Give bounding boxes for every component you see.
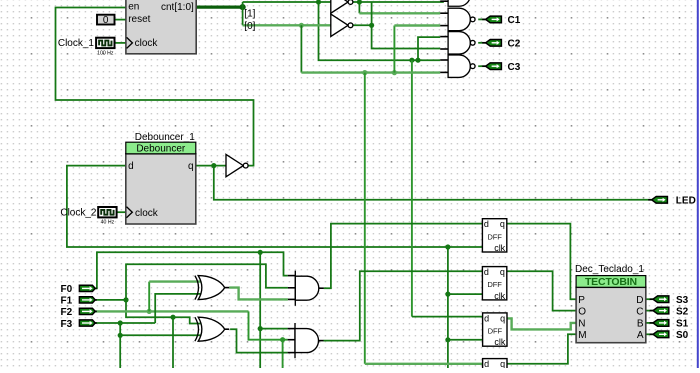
junction F1 [123,297,128,302]
wire to DFF4 d [365,363,483,365]
svg-text:en: en [128,2,139,13]
junction C3 upper / C2 riser [415,58,420,63]
svg-text:0: 0 [103,15,109,26]
XOR gate XOR1 [198,276,225,300]
svg-text:q: q [500,359,505,368]
wire F3 to XOR1 lower input [155,294,201,323]
wire F3 from pin [92,322,155,324]
NAND gate NAND0 (clipped) [448,0,470,6]
wire C1 gate to pin [478,18,485,20]
svg-text:DFF: DFF [488,327,503,336]
svg-text:clock: clock [135,208,159,219]
XOR gate XOR2 [198,317,225,341]
input pin F1 [93,299,96,301]
wire D to S3 [646,298,653,300]
svg-text:A: A [637,330,644,341]
wire B to S1 [646,322,653,324]
junction clk DFF2 [445,292,450,297]
svg-text:C1: C1 [508,15,521,26]
wire F3 to XOR2 lower input [120,323,201,335]
output pin LED [648,199,653,201]
output pin S0 [650,333,655,335]
wire inverter2 out [353,24,372,26]
svg-text:DFF: DFF [487,280,502,289]
svg-text:d: d [484,313,489,323]
NAND gate C2 gate [448,32,470,55]
wire F1 from pin [92,299,126,301]
wire XOR1 out to AND1 lower input [229,288,288,300]
svg-text:q: q [500,267,505,277]
wire F2 to AND2 middle input [249,311,288,339]
constant 0 [97,15,115,25]
junction C3 upper / V4 [409,58,414,63]
NAND gate C3 gate [448,55,470,77]
wire en feedback loop [56,8,254,166]
wire to DFF3 clk [448,339,483,341]
wire riser to C1 upper [358,2,360,13]
svg-text:Dec_Teclado_1: Dec_Teclado_1 [575,264,644,275]
wire F2 to XOR1 upper input [149,280,201,282]
svg-text:P: P [578,295,585,306]
clock Clock_1 [96,38,114,48]
junction bit0 branch [299,23,304,28]
splitter node [240,4,246,10]
junction inverter2 out [369,23,374,28]
inverter U3 [226,154,243,176]
svg-text:N: N [578,319,585,330]
wire F3 branch to bottom [119,335,121,368]
junction inv1 out [357,0,362,5]
wire Clock_2 to clock input [113,211,126,213]
svg-text:F1: F1 [61,296,73,307]
wire A to S0 [646,333,653,335]
output pin C1 [482,18,487,20]
wire V3 vertical [364,73,366,364]
wire const0 to reset [115,19,126,21]
junction bit1 branch [316,0,321,5]
wire F1 branch to bottom [172,317,174,368]
input pin F3 [93,322,96,324]
wire F2 branch to bottom [282,340,284,368]
wire inverter1 out to NAND0 input [353,1,444,3]
D flip-flop DFF3 [483,313,507,346]
wire to LED output [214,166,652,200]
wire F1 to AND1 middle input [126,264,288,300]
svg-text:Debouncer_1: Debouncer_1 [135,132,195,143]
svg-text:[0]: [0] [244,21,255,32]
svg-text:F3: F3 [61,319,73,330]
junction F2 [147,309,152,314]
wire V4 vertical [411,60,413,316]
inverter U2 [331,14,348,36]
junction clk DFF3 [445,337,450,342]
D flip-flop DFF2 [482,267,506,300]
svg-text:clock: clock [135,38,159,49]
wire F0 branch down [259,252,261,368]
svg-text:Clock_1: Clock_1 [58,38,95,49]
D flip-flop DFF1 [482,219,506,252]
wire to DFF2 clk [448,293,483,295]
wire C to S2 [646,310,653,312]
output pin S3 [650,298,655,300]
svg-text:clk: clk [494,243,505,253]
svg-text:q: q [500,219,505,229]
junction F0 [258,250,263,255]
wire to DFF3 d [412,316,483,318]
svg-text:C3: C3 [508,62,521,73]
D flip-flop DFF4 (clipped) [483,359,507,373]
junction C3 lower / V3 [362,70,367,75]
svg-text:C: C [636,306,643,317]
wire bit1 to NAND C3 upper input [319,2,441,60]
wire AND1 out to DFF1 d [324,224,483,289]
svg-text:Debouncer: Debouncer [136,144,186,155]
splitter spine [242,2,244,25]
svg-text:B: B [637,319,644,330]
svg-text:40 Hz: 40 Hz [101,220,115,226]
svg-text:M: M [578,330,586,341]
svg-text:d: d [484,359,489,368]
wire XOR2 out to AND2 lower input [230,329,288,352]
wire bit1 to inverter U1 [243,1,331,3]
svg-text:d: d [484,267,489,277]
svg-text:O: O [578,306,586,317]
wire to NAND C1 lower input [394,24,440,26]
canvas border [697,0,699,368]
svg-text:DFF: DFF [487,232,502,241]
clock Clock_2 [98,207,116,217]
wire to NAND C1 upper input [359,12,440,14]
output pin S2 [650,310,655,312]
wire F0 to AND1 upper input [260,252,288,275]
junction C3 lower / C1 riser [392,70,397,75]
junction clk net at DFF1 [445,244,450,249]
svg-text:F2: F2 [61,307,73,318]
wire DFF1 q to P [507,224,576,300]
wire F0 up [92,252,260,288]
junction F3 lower [118,333,123,338]
svg-text:S2: S2 [676,306,689,317]
junction F3 [118,320,123,325]
svg-text:S0: S0 [676,330,689,341]
wire AND2 out to DFF2 d [323,271,482,340]
wire F2 riser [148,282,150,312]
svg-text:F0: F0 [61,284,73,295]
wire to NAND C2 lower input [372,2,441,49]
svg-text:reset: reset [128,14,150,25]
junction F1 branch down [170,315,175,320]
input pin F0 [93,287,96,289]
svg-text:clk: clk [494,291,505,301]
wire bit0 riser down [300,25,302,72]
svg-text:d: d [484,219,489,229]
junction debouncer q node [211,163,216,168]
output pin C3 [482,65,487,67]
svg-text:D: D [636,295,643,306]
counter block Contador_1 [126,0,196,54]
wire riser to C1 lower [393,26,395,73]
svg-text:100 Hz: 100 Hz [97,50,114,56]
wire F2 from pin [92,310,248,312]
wire debouncer q to inverter [196,165,226,167]
svg-text:TECTOBIN: TECTOBIN [585,276,637,288]
NAND gate C1 gate [448,8,470,31]
inverter U1 [331,0,348,13]
svg-text:[1]: [1] [244,9,255,20]
wire Clock_1 to clock input [115,42,126,44]
svg-text:Clock_2: Clock_2 [60,208,97,219]
junction F0 to AND2 [258,326,263,331]
bus cnt[1:0] [196,5,242,8]
wire bit0 to NAND C3 lower input [301,71,440,73]
wire clk vertical [447,247,449,368]
wire C3 gate to pin [478,65,485,67]
svg-text:q: q [500,313,505,323]
input pin F2 [93,310,96,312]
svg-text:S3: S3 [676,295,689,306]
wire debouncer d / clock net [67,166,448,247]
wire DFF4 q to M [507,334,576,364]
svg-text:S1: S1 [676,319,689,330]
wire F0 to AND2 upper input [260,328,287,330]
svg-text:cnt[1:0]: cnt[1:0] [161,2,194,13]
svg-text:q: q [188,161,194,172]
output pin C2 [482,42,487,44]
wire DFF2 q to O [507,271,576,310]
AND gate AND1 [294,271,296,306]
wire to DFF1 clk [448,246,483,248]
wire to NAND C2 upper input [418,37,440,60]
svg-text:LED: LED [676,195,696,206]
svg-text:C2: C2 [508,39,521,50]
svg-text:d: d [128,161,134,172]
wire DFF3 q to N [507,318,576,329]
wire bit0 to inverter U2 [243,24,331,26]
junction F2 branch [280,337,285,342]
output pin S1 [650,322,655,324]
wire F1 to XOR2 upper input [126,300,202,324]
AND gate AND2 [294,323,296,358]
svg-text:clk: clk [494,337,505,347]
wire C2 gate to pin [478,42,485,44]
